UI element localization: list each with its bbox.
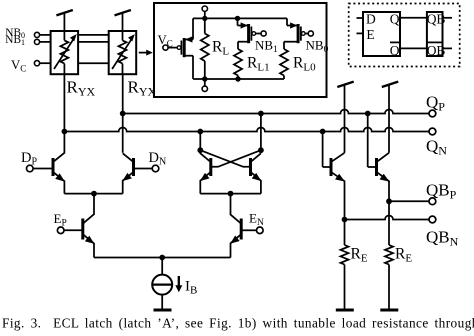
wire Q to QB buffer — [400, 17, 427, 19]
pmos M1 (VC shunt transistor) — [177, 18, 193, 79]
wire Qbar to QB buffer — [400, 47, 427, 49]
ground (below RE right) — [380, 309, 398, 312]
svg-text:Q: Q — [390, 11, 400, 26]
transistor Q8 (EN clock) — [230, 194, 256, 258]
latch block U1 (D/E latch) — [357, 11, 401, 58]
wire Q3-Q4 emitter rail — [200, 193, 261, 195]
svg-text:QB: QB — [427, 43, 446, 58]
resistor RL1 — [234, 49, 242, 79]
junction dot emitter rail to Q7 — [91, 191, 97, 197]
terminal inset bottom — [202, 79, 207, 92]
pmos M2 (NB1 branch) — [238, 18, 267, 49]
supply rail (above Q5) — [337, 82, 353, 153]
wire node Y down to Q4 collector — [258, 111, 264, 154]
wire node X to Q5 base — [320, 129, 331, 167]
svg-text:IB: IB — [185, 279, 197, 297]
tunable resistor RYX (left box) — [51, 31, 79, 74]
terminal VC (inset) — [158, 33, 178, 50]
svg-text:EP: EP — [54, 211, 67, 229]
inset box (RYX internal detail) — [154, 3, 327, 97]
svg-text:Q: Q — [390, 43, 400, 58]
junction dot node Y at Q2 collector — [120, 111, 126, 117]
wire Q1-Q2 emitter rail — [64, 193, 122, 195]
wire node Y to Q6 base — [365, 111, 377, 167]
buffer block U2 (QB) — [427, 11, 452, 58]
arrow pointer to inset — [139, 50, 153, 56]
svg-text:D: D — [366, 11, 376, 26]
wire NB1 between boxes — [78, 41, 109, 43]
svg-text:QBP: QBP — [426, 180, 457, 201]
transistor Q6 (emitter follower QBP) — [377, 153, 390, 245]
terminal QP — [426, 93, 445, 117]
svg-text:RYX: RYX — [67, 78, 96, 99]
supply rail (above RYX left) — [56, 10, 72, 31]
pmos M3 (NB0 branch) — [284, 18, 313, 49]
resistor RE (left) — [341, 245, 349, 310]
terminal DP — [21, 150, 37, 172]
transistor Q7 (EP clock) — [64, 194, 94, 258]
terminal QBP — [426, 180, 457, 204]
resistor RL0 — [280, 49, 288, 79]
wire inset bottom rail — [193, 78, 284, 80]
wire VC between boxes — [78, 62, 109, 64]
svg-text:DP: DP — [21, 150, 37, 168]
node Y wire (upper latch rail to QP) — [123, 110, 429, 114]
svg-text:RE: RE — [351, 246, 368, 265]
terminal EN — [249, 211, 264, 234]
terminal QBN — [426, 216, 459, 248]
cross-coupled pair: wire node X down to Q3 collector — [197, 129, 203, 154]
resistor RE (right) — [385, 245, 393, 310]
ground (below RE left) — [336, 309, 354, 312]
wire NB0 between boxes — [78, 34, 109, 36]
svg-text:EN: EN — [249, 211, 264, 229]
terminal NB0 — [5, 27, 50, 40]
junction dot Q3-Q4 emitters to Q8 — [228, 191, 234, 197]
wire inset top rail — [193, 17, 287, 19]
svg-text:Fig. 3. ECL latch (latch ’A’,: Fig. 3. ECL latch (latch ’A’, see Fig. 1… — [2, 316, 474, 331]
wire QBP output — [386, 198, 429, 204]
svg-text:E: E — [366, 27, 374, 42]
svg-text:RYX: RYX — [128, 78, 157, 99]
transistor Q2 (DN input) — [122, 153, 152, 193]
transistor Q1 (DP input) — [33, 132, 65, 194]
junction dot node X at box1 — [62, 129, 68, 135]
svg-text:QP: QP — [426, 93, 445, 114]
wire Q3 collector to Q4 base (cross) — [200, 150, 250, 167]
wire Q7-Q8 emitter rail (IB node) — [94, 257, 231, 259]
svg-text:VC: VC — [11, 58, 26, 74]
wire Q4 collector to Q3 base (cross) — [211, 150, 261, 167]
junction dot inset top RL — [202, 16, 207, 21]
terminal VC — [11, 58, 51, 74]
supply rail (above RYX right) — [115, 10, 131, 31]
tunable resistor RYX (right box) — [109, 31, 137, 74]
transistor Q5 (emitter follower QBN) — [331, 153, 345, 245]
svg-text:QBN: QBN — [426, 228, 459, 249]
IB current arrow — [175, 276, 182, 292]
junction dot inset bottom RL — [202, 76, 207, 81]
junction dot IB node — [159, 255, 165, 261]
wire QBN output (hops over Q6 emitter) — [342, 216, 429, 223]
terminal inset top — [202, 6, 207, 18]
terminal EP — [54, 211, 67, 234]
junction dot inset top NB1 — [235, 16, 240, 21]
ground (below IB) — [154, 309, 172, 312]
wire box1 down to latch node X — [63, 74, 65, 131]
node X wire (lower latch rail to QN, with crossovers) — [64, 128, 429, 132]
transistor Q3 (cross-coupled left) — [200, 150, 211, 193]
supply rail (above Q6) — [382, 82, 398, 153]
terminal QN — [426, 128, 447, 157]
transistor Q4 (cross-coupled right) — [251, 153, 262, 193]
dashed box (latch block diagram) — [349, 4, 460, 67]
junction dot inset bottom NB1 — [235, 76, 240, 81]
svg-text:DN: DN — [149, 150, 167, 168]
current source IB — [152, 258, 172, 311]
svg-text:RE: RE — [395, 246, 412, 265]
terminal NB1 — [5, 34, 50, 47]
wire box2 down through node Y to Q2 collector — [122, 74, 124, 153]
svg-text:QB: QB — [427, 11, 446, 26]
svg-text:QN: QN — [426, 137, 447, 158]
resistor RL — [201, 18, 209, 79]
terminal DN — [149, 150, 167, 172]
